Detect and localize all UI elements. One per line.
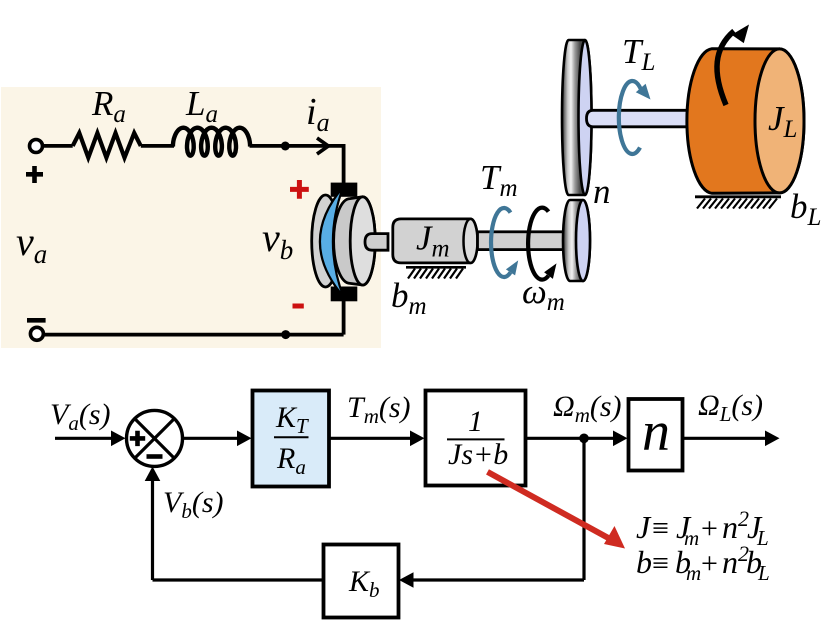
svg-text:n: n (593, 172, 611, 211)
resistor Ra (73, 133, 141, 158)
motor shaft (365, 234, 388, 251)
node junction dot bottom (281, 330, 290, 339)
svg-text:n: n (642, 401, 670, 463)
motor output shaft (478, 232, 567, 250)
wire resistor to inductor (141, 144, 174, 148)
hatching bL (695, 197, 781, 209)
feedback wire to Kb (411, 578, 584, 581)
Jm cylinder (393, 219, 478, 263)
inductor La (173, 128, 250, 156)
wire motor to bottom rail (342, 300, 346, 335)
feedback wire Kb to sum (153, 578, 324, 581)
gear large disk (562, 40, 592, 195)
svg-text:b≡bm+n2bL: b≡bm+n2bL (636, 541, 770, 585)
motor bottom tab (331, 287, 358, 302)
load cylinder cap (755, 49, 804, 193)
motor commutator blue band (320, 187, 343, 297)
wire inductor to node (250, 144, 286, 148)
load shaft (587, 110, 689, 127)
block KT/Ra (253, 391, 330, 487)
load cylinder JL (687, 49, 804, 194)
svg-text:ΩL(s): ΩL(s) (698, 389, 763, 426)
gear small disk (563, 200, 590, 281)
torque arrow TL (blue) (619, 81, 651, 154)
svg-text:Va(s): Va(s) (50, 398, 110, 435)
motor top tab (331, 183, 358, 197)
wire down to motor (342, 144, 346, 184)
wire Js+b to n block (526, 437, 617, 440)
feedback wire down (582, 438, 585, 580)
motor front cap (350, 197, 375, 285)
block Kb (324, 545, 399, 618)
motor body cylinder (334, 197, 376, 285)
bottom rail wire (43, 333, 343, 337)
block 1/(Js+b) (426, 391, 526, 486)
svg-text:Vb(s): Vb(s) (163, 486, 223, 523)
hatching bm (406, 267, 466, 278)
svg-text:Js+b: Js+b (448, 438, 508, 471)
terminal - (bottom left) (27, 320, 46, 340)
node dot (579, 434, 589, 444)
wire KT to Js+b block (329, 437, 413, 440)
terminal + (top left) (26, 140, 43, 184)
speed arrow omega (black) (528, 208, 556, 280)
motor back disk (312, 195, 340, 287)
input arrow (55, 437, 114, 440)
output arrow (683, 437, 769, 440)
torque arrow Tm (blue) (491, 208, 518, 277)
wire sum to KT block (183, 437, 241, 440)
wire with ia arrow (285, 144, 345, 148)
svg-text:Tm(s): Tm(s) (347, 391, 411, 428)
red minus (293, 304, 304, 309)
cream background panel (1, 87, 381, 348)
red annotation arrow (488, 472, 626, 549)
summing junction (127, 410, 183, 466)
node junction dot top (281, 142, 290, 151)
red plus (290, 180, 309, 199)
wire terminal to resistor (43, 144, 73, 148)
block n (629, 399, 683, 471)
rotation arrow on load (717, 25, 749, 106)
svg-text:1: 1 (468, 405, 483, 438)
